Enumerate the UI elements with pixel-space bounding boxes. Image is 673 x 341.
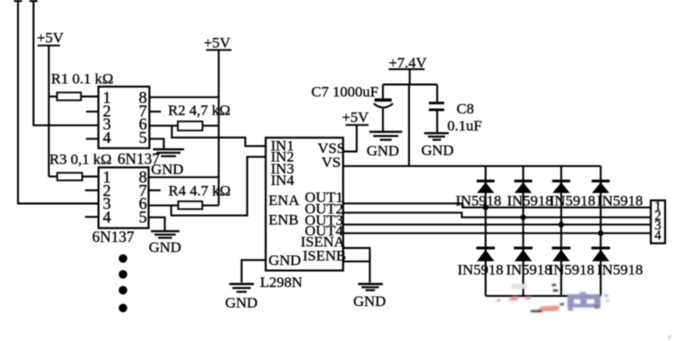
- capacitor C7: [374, 100, 393, 108]
- wire L298N GND pin to ground: [242, 260, 266, 282]
- ellipsis dots: [119, 254, 128, 312]
- diode D6: [514, 248, 533, 261]
- svg-text:IN5918: IN5918: [597, 263, 643, 279]
- svg-text:IN5918: IN5918: [506, 263, 552, 279]
- svg-text:0.1uF: 0.1uF: [447, 119, 482, 135]
- capacitor C8: [429, 103, 444, 110]
- wire +5V drop to R1/R3: [48, 46, 50, 177]
- wire VS rail to diodes: [343, 165, 601, 167]
- diode D4: [592, 181, 610, 193]
- svg-text:GND: GND: [225, 296, 258, 312]
- wire IC1 pin8 to +5V rail: [149, 96, 218, 98]
- resistor R1: [57, 93, 81, 101]
- svg-text:GND: GND: [421, 143, 454, 159]
- wire IC2 pin5 to ground: [149, 217, 165, 231]
- wire diode column 4: [600, 166, 602, 296]
- wire C7 to ground: [382, 109, 384, 132]
- ground GND2 (U2 pin5): [151, 231, 180, 238]
- wire left bus B: [34, 2, 99, 125]
- svg-text:5: 5: [139, 128, 147, 147]
- wire left bus A: [18, 2, 98, 204]
- wire IC2 pin7 stub: [149, 189, 161, 191]
- svg-text:IN5918: IN5918: [507, 194, 553, 210]
- ground GND4 (ISEN): [358, 284, 383, 290]
- node junction dot col3/OUT3: [558, 222, 564, 228]
- svg-text:+5V: +5V: [37, 31, 64, 47]
- svg-text:IN5918: IN5918: [549, 263, 595, 279]
- svg-text:IN5918: IN5918: [458, 263, 504, 279]
- wire IC1 pin4 stub: [86, 138, 98, 140]
- +5V supply 2: [204, 36, 232, 52]
- diode D1: [477, 181, 495, 193]
- wire IC1 pin7 stub: [149, 111, 161, 113]
- wire +5V to VSS: [343, 125, 357, 152]
- svg-text:6N137: 6N137: [92, 229, 134, 246]
- node junction dot col2/OUT2: [520, 215, 526, 221]
- svg-text:GND: GND: [353, 294, 386, 310]
- svg-text:ENB: ENB: [269, 212, 299, 228]
- svg-text:GND: GND: [269, 253, 302, 269]
- connector J1: [651, 199, 665, 244]
- node junction dot col1/OUT1: [483, 205, 489, 211]
- +7.4V supply: [389, 56, 427, 72]
- ground GND3 (L298N GND pin): [229, 284, 254, 292]
- wire IC2 pin2 stub: [85, 189, 99, 191]
- ground GND6 (C8): [424, 133, 449, 140]
- diode D8: [591, 248, 610, 261]
- wire diode column 3: [560, 166, 562, 296]
- wire OUT1: [343, 203, 651, 207]
- op-amp U2 6N137: [99, 167, 149, 228]
- wire IC2 pin4 stub: [85, 216, 99, 218]
- svg-text:R3 0,1 kΩ: R3 0,1 kΩ: [49, 152, 111, 168]
- resistor R4: [178, 201, 202, 209]
- ground GND5 (C7): [369, 132, 402, 140]
- svg-text:VS: VS: [322, 155, 341, 171]
- wire diode column 2: [522, 166, 524, 296]
- diode D3: [552, 181, 570, 193]
- svg-text:C7 1000uF: C7 1000uF: [311, 85, 378, 101]
- wire +7.4V rail: [383, 84, 437, 86]
- diode D7: [552, 248, 571, 261]
- wire ISENB to ground: [343, 260, 370, 262]
- svg-text:IN4: IN4: [271, 173, 295, 189]
- svg-text:C8: C8: [457, 102, 475, 118]
- wire +7.4V feed: [409, 69, 411, 84]
- wire C8 to ground: [436, 111, 438, 133]
- +5V supply 3: [342, 110, 369, 126]
- wire R3 to pin1: [49, 176, 57, 178]
- diode D5: [476, 248, 495, 261]
- wire R1 to pin1: [49, 96, 57, 98]
- op-amp U1 6N137: [98, 87, 149, 149]
- svg-text:IN5918: IN5918: [456, 194, 502, 210]
- diode D2: [514, 181, 532, 193]
- svg-text:R1 0.1 kΩ: R1 0.1 kΩ: [51, 72, 113, 88]
- svg-text:R2 4,7 kΩ: R2 4,7 kΩ: [168, 103, 230, 119]
- wire top tick A: [14, 0, 22, 2]
- svg-text:ENA: ENA: [269, 193, 300, 209]
- wire +5V pullup vertical: [218, 50, 220, 205]
- wire IC1 pin2 stub: [86, 111, 98, 113]
- svg-text:ISENB: ISENB: [303, 249, 346, 265]
- wire top tick B: [30, 0, 38, 2]
- resistor R3: [57, 173, 82, 181]
- svg-text:GND: GND: [149, 240, 182, 256]
- watermark: [495, 284, 671, 340]
- svg-text:4: 4: [103, 128, 111, 147]
- svg-text:GND: GND: [367, 144, 400, 160]
- svg-text:GND: GND: [151, 162, 184, 178]
- svg-text:IN5918: IN5918: [550, 194, 596, 210]
- wire OUT3: [343, 224, 651, 226]
- svg-text:+5V: +5V: [342, 110, 369, 126]
- wire IC1 out to IN1: [172, 126, 266, 146]
- svg-text:4: 4: [655, 228, 662, 243]
- op-amp U3 L298N: [266, 138, 346, 271]
- wire IC2 pin6 to R4: [149, 204, 179, 206]
- wire bottom rail: [486, 295, 601, 297]
- resistor R2: [178, 121, 203, 130]
- wire ISENA to ground: [343, 248, 370, 283]
- svg-text:IN5918: IN5918: [597, 194, 643, 210]
- node junction dot col4/OUT4: [598, 230, 604, 236]
- wire diode column 1: [485, 166, 487, 296]
- svg-text:5: 5: [139, 207, 147, 226]
- svg-text:R4 4.7 kΩ: R4 4.7 kΩ: [168, 184, 230, 200]
- wire IC2 out to IN2: [171, 157, 266, 216]
- wire VS feed from +7.4V: [408, 85, 410, 167]
- wire IC1 pin5 to ground: [149, 139, 163, 150]
- wire IC1 pin6 to R2: [149, 125, 177, 127]
- wire IC2 pin8 to +5V rail: [149, 176, 219, 178]
- wire C8 branch: [436, 85, 438, 103]
- svg-text:L298N: L298N: [260, 275, 303, 291]
- wire C7 branch: [382, 85, 384, 100]
- wire OUT4: [343, 232, 651, 234]
- +5V supply 1: [37, 31, 64, 47]
- wire OUT2: [343, 213, 651, 218]
- svg-text:4: 4: [103, 207, 111, 226]
- ground GND1 (U1 pin5): [153, 149, 184, 156]
